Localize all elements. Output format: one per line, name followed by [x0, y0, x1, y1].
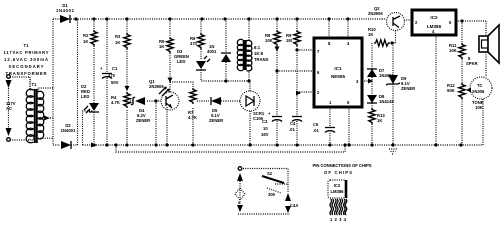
- svg-text:PIN CONNECTIONS OF CHIPS: PIN CONNECTIONS OF CHIPS: [313, 163, 372, 168]
- svg-text:OF CHIPS: OF CHIPS: [324, 170, 352, 175]
- svg-text:IC1: IC1: [334, 66, 342, 71]
- transformer T2: [248, 19, 250, 81]
- svg-text:1K:8: 1K:8: [254, 51, 264, 56]
- svg-text:LED: LED: [177, 59, 185, 64]
- sub-circuit battery test: [235, 167, 298, 214]
- resistor R11 pot: [459, 83, 465, 99]
- wire bottom rail: [83, 111, 484, 145]
- svg-text:R3: R3: [115, 34, 121, 39]
- resistor R9h horizontal: [368, 27, 390, 46]
- svg-text:1N4001: 1N4001: [56, 8, 75, 13]
- svg-text:1K: 1K: [83, 39, 88, 44]
- wire D2 to x77 vertical: [71, 19, 78, 145]
- ground: [391, 143, 394, 146]
- resistor R6: [198, 33, 204, 49]
- wire IC1 top pins: [329, 19, 348, 38]
- wire to pin 2: [297, 91, 314, 93]
- svg-text:AC: AC: [6, 106, 12, 111]
- zener D4: [131, 97, 145, 105]
- svg-text:1N4148: 1N4148: [379, 99, 394, 104]
- svg-text:IC2: IC2: [430, 15, 438, 20]
- lamp I1: [235, 188, 245, 200]
- svg-text:+: +: [268, 111, 271, 116]
- svg-text:10K: 10K: [265, 38, 273, 43]
- svg-text:117VAC PRIMARY: 117VAC PRIMARY: [4, 50, 49, 55]
- svg-text:NE555: NE555: [331, 74, 345, 79]
- svg-text:TRANS: TRANS: [254, 57, 269, 62]
- svg-text:2N306: 2N306: [472, 89, 485, 94]
- photo arrows into Q1: [159, 88, 168, 96]
- node rail dots: [74, 17, 77, 20]
- svg-text:8:1: 8:1: [254, 45, 261, 50]
- svg-text:ZENER: ZENER: [209, 118, 223, 123]
- transistor Q1: [161, 82, 179, 145]
- wire Q1 collector to R7: [170, 82, 193, 88]
- svg-text:50K: 50K: [447, 88, 455, 93]
- resistor R10v: [459, 43, 465, 59]
- svg-text:2N3906: 2N3906: [368, 11, 383, 16]
- svg-text:1K: 1K: [377, 118, 382, 123]
- resistor R12: [369, 108, 375, 124]
- op-amp IC2 LM386: [412, 10, 456, 35]
- svg-text:.01: .01: [289, 127, 295, 132]
- svg-text:LM386: LM386: [330, 189, 344, 194]
- svg-text:1 2 3 4: 1 2 3 4: [330, 217, 347, 222]
- node 249,81: [247, 79, 250, 82]
- svg-text:x: x: [238, 200, 241, 205]
- diode D6 (up): [225, 19, 227, 81]
- wire x372 vertical: [371, 43, 373, 145]
- svg-text:470: 470: [108, 73, 116, 78]
- diode D8 down: [367, 95, 377, 103]
- svg-text:1K: 1K: [115, 40, 120, 45]
- svg-text:C1: C1: [112, 66, 118, 71]
- svg-text:S2: S2: [267, 171, 273, 176]
- resistor R7: [192, 108, 194, 145]
- svg-text:1K: 1K: [159, 44, 164, 49]
- SCR1: [240, 81, 260, 145]
- speaker SPKR: [479, 25, 499, 77]
- svg-text:C4A: C4A: [290, 203, 298, 208]
- transformer T1 label block: [4, 43, 49, 76]
- svg-text:4001: 4001: [207, 49, 217, 54]
- svg-text:4.7K: 4.7K: [111, 100, 120, 105]
- wire IC1 bottom pins: [330, 107, 349, 145]
- resistor R2: [91, 30, 97, 46]
- diode D5 (left): [211, 97, 221, 105]
- svg-text:4.7K: 4.7K: [188, 115, 197, 120]
- junction arrow on rail: [91, 143, 97, 148]
- wire x462 down: [461, 21, 463, 145]
- node speaker top: [460, 19, 463, 22]
- svg-text:T1: T1: [32, 82, 38, 87]
- capacitor C3: [261, 111, 282, 137]
- svg-text:10K: 10K: [475, 105, 483, 110]
- wire LED D3 to T2/SCR: [201, 70, 249, 81]
- node base dot: [154, 99, 157, 102]
- svg-text:R2: R2: [83, 33, 89, 38]
- LED D3 green: [196, 56, 210, 70]
- svg-text:LED: LED: [81, 94, 89, 99]
- pot circle: [470, 77, 492, 99]
- svg-text:1M: 1M: [286, 38, 292, 43]
- svg-text:1K: 1K: [368, 32, 373, 37]
- junction arrow pin2: [296, 91, 301, 96]
- switch S2: [262, 176, 284, 183]
- svg-text:TRANSFORMER: TRANSFORMER: [6, 71, 47, 76]
- svg-text:T1: T1: [24, 43, 30, 48]
- package IC2 LM386 pictorial: [328, 180, 347, 222]
- svg-text:C3: C3: [262, 119, 268, 124]
- wire y101 to D5: [197, 100, 240, 102]
- junction arrow into y81: [168, 78, 173, 83]
- resistor R5: [167, 37, 173, 53]
- wire IC2 bottom pin: [435, 35, 437, 145]
- resistor R8: [274, 30, 280, 46]
- diode D1: [60, 15, 70, 23]
- svg-text:50V: 50V: [111, 80, 119, 85]
- svg-text:ZENER: ZENER: [401, 86, 415, 91]
- wire top rail: [53, 18, 382, 20]
- terminal A: [238, 167, 242, 171]
- svg-text:12.6VAC 300mA: 12.6VAC 300mA: [4, 57, 48, 62]
- diode D7 up: [367, 69, 377, 77]
- package legs: [330, 199, 338, 215]
- center tap arrow: [44, 116, 50, 121]
- right branch: [287, 184, 289, 192]
- svg-text:IC2: IC2: [334, 183, 341, 188]
- AC plug terminal top: [7, 75, 11, 79]
- node pin6 wire: [275, 47, 280, 52]
- wire IC2 right to speaker node: [404, 20, 486, 35]
- transistor Q2: [382, 13, 405, 44]
- svg-text:10: 10: [263, 126, 268, 131]
- wire pin3 out: [362, 80, 369, 82]
- capacitor C4: [289, 117, 302, 133]
- svg-text:1N4001: 1N4001: [61, 128, 76, 133]
- switch arm lower: [267, 188, 281, 193]
- op-amp IC1 NE555: [314, 38, 362, 107]
- svg-text:SPKR: SPKR: [466, 61, 478, 66]
- svg-text:10K: 10K: [449, 48, 457, 53]
- svg-text:C6: C6: [313, 122, 319, 127]
- resistor R3: [124, 33, 130, 49]
- wire base stub down: [155, 101, 157, 145]
- bottom rail junction dots: [92, 143, 95, 146]
- resistor R4: [125, 86, 130, 91]
- wire to pin 7: [297, 49, 314, 51]
- wire base line y101: [130, 100, 161, 102]
- capacitor C1: [106, 19, 108, 145]
- svg-text:SECONDARY: SECONDARY: [9, 64, 44, 69]
- AC plug terminal bottom: [6, 128, 12, 136]
- wire bypass loop: [116, 145, 345, 152]
- svg-text:300: 300: [268, 192, 276, 197]
- arrow up: [237, 173, 243, 181]
- node pin7 wire: [295, 48, 298, 51]
- svg-text:+: +: [100, 66, 103, 71]
- wire to pin 6: [277, 70, 314, 72]
- svg-text:ZENER: ZENER: [136, 118, 150, 123]
- diode D2: [61, 141, 71, 149]
- node 226,81: [224, 79, 227, 82]
- svg-text:.01: .01: [313, 128, 319, 133]
- wire left vertical x53: [53, 19, 60, 145]
- svg-text:16V: 16V: [261, 132, 269, 137]
- bottom wire: [238, 213, 290, 215]
- arrow down: [237, 205, 243, 212]
- svg-text:C4: C4: [290, 121, 296, 126]
- LED D2 (red): [84, 103, 99, 145]
- resistor R9: [294, 30, 300, 46]
- capacitor C6: [313, 122, 335, 133]
- zener D9: [392, 43, 394, 145]
- transformer T1: [26, 77, 53, 143]
- svg-text:470: 470: [190, 41, 198, 46]
- svg-text:2N3906: 2N3906: [149, 84, 164, 89]
- svg-text:TC: TC: [477, 83, 483, 88]
